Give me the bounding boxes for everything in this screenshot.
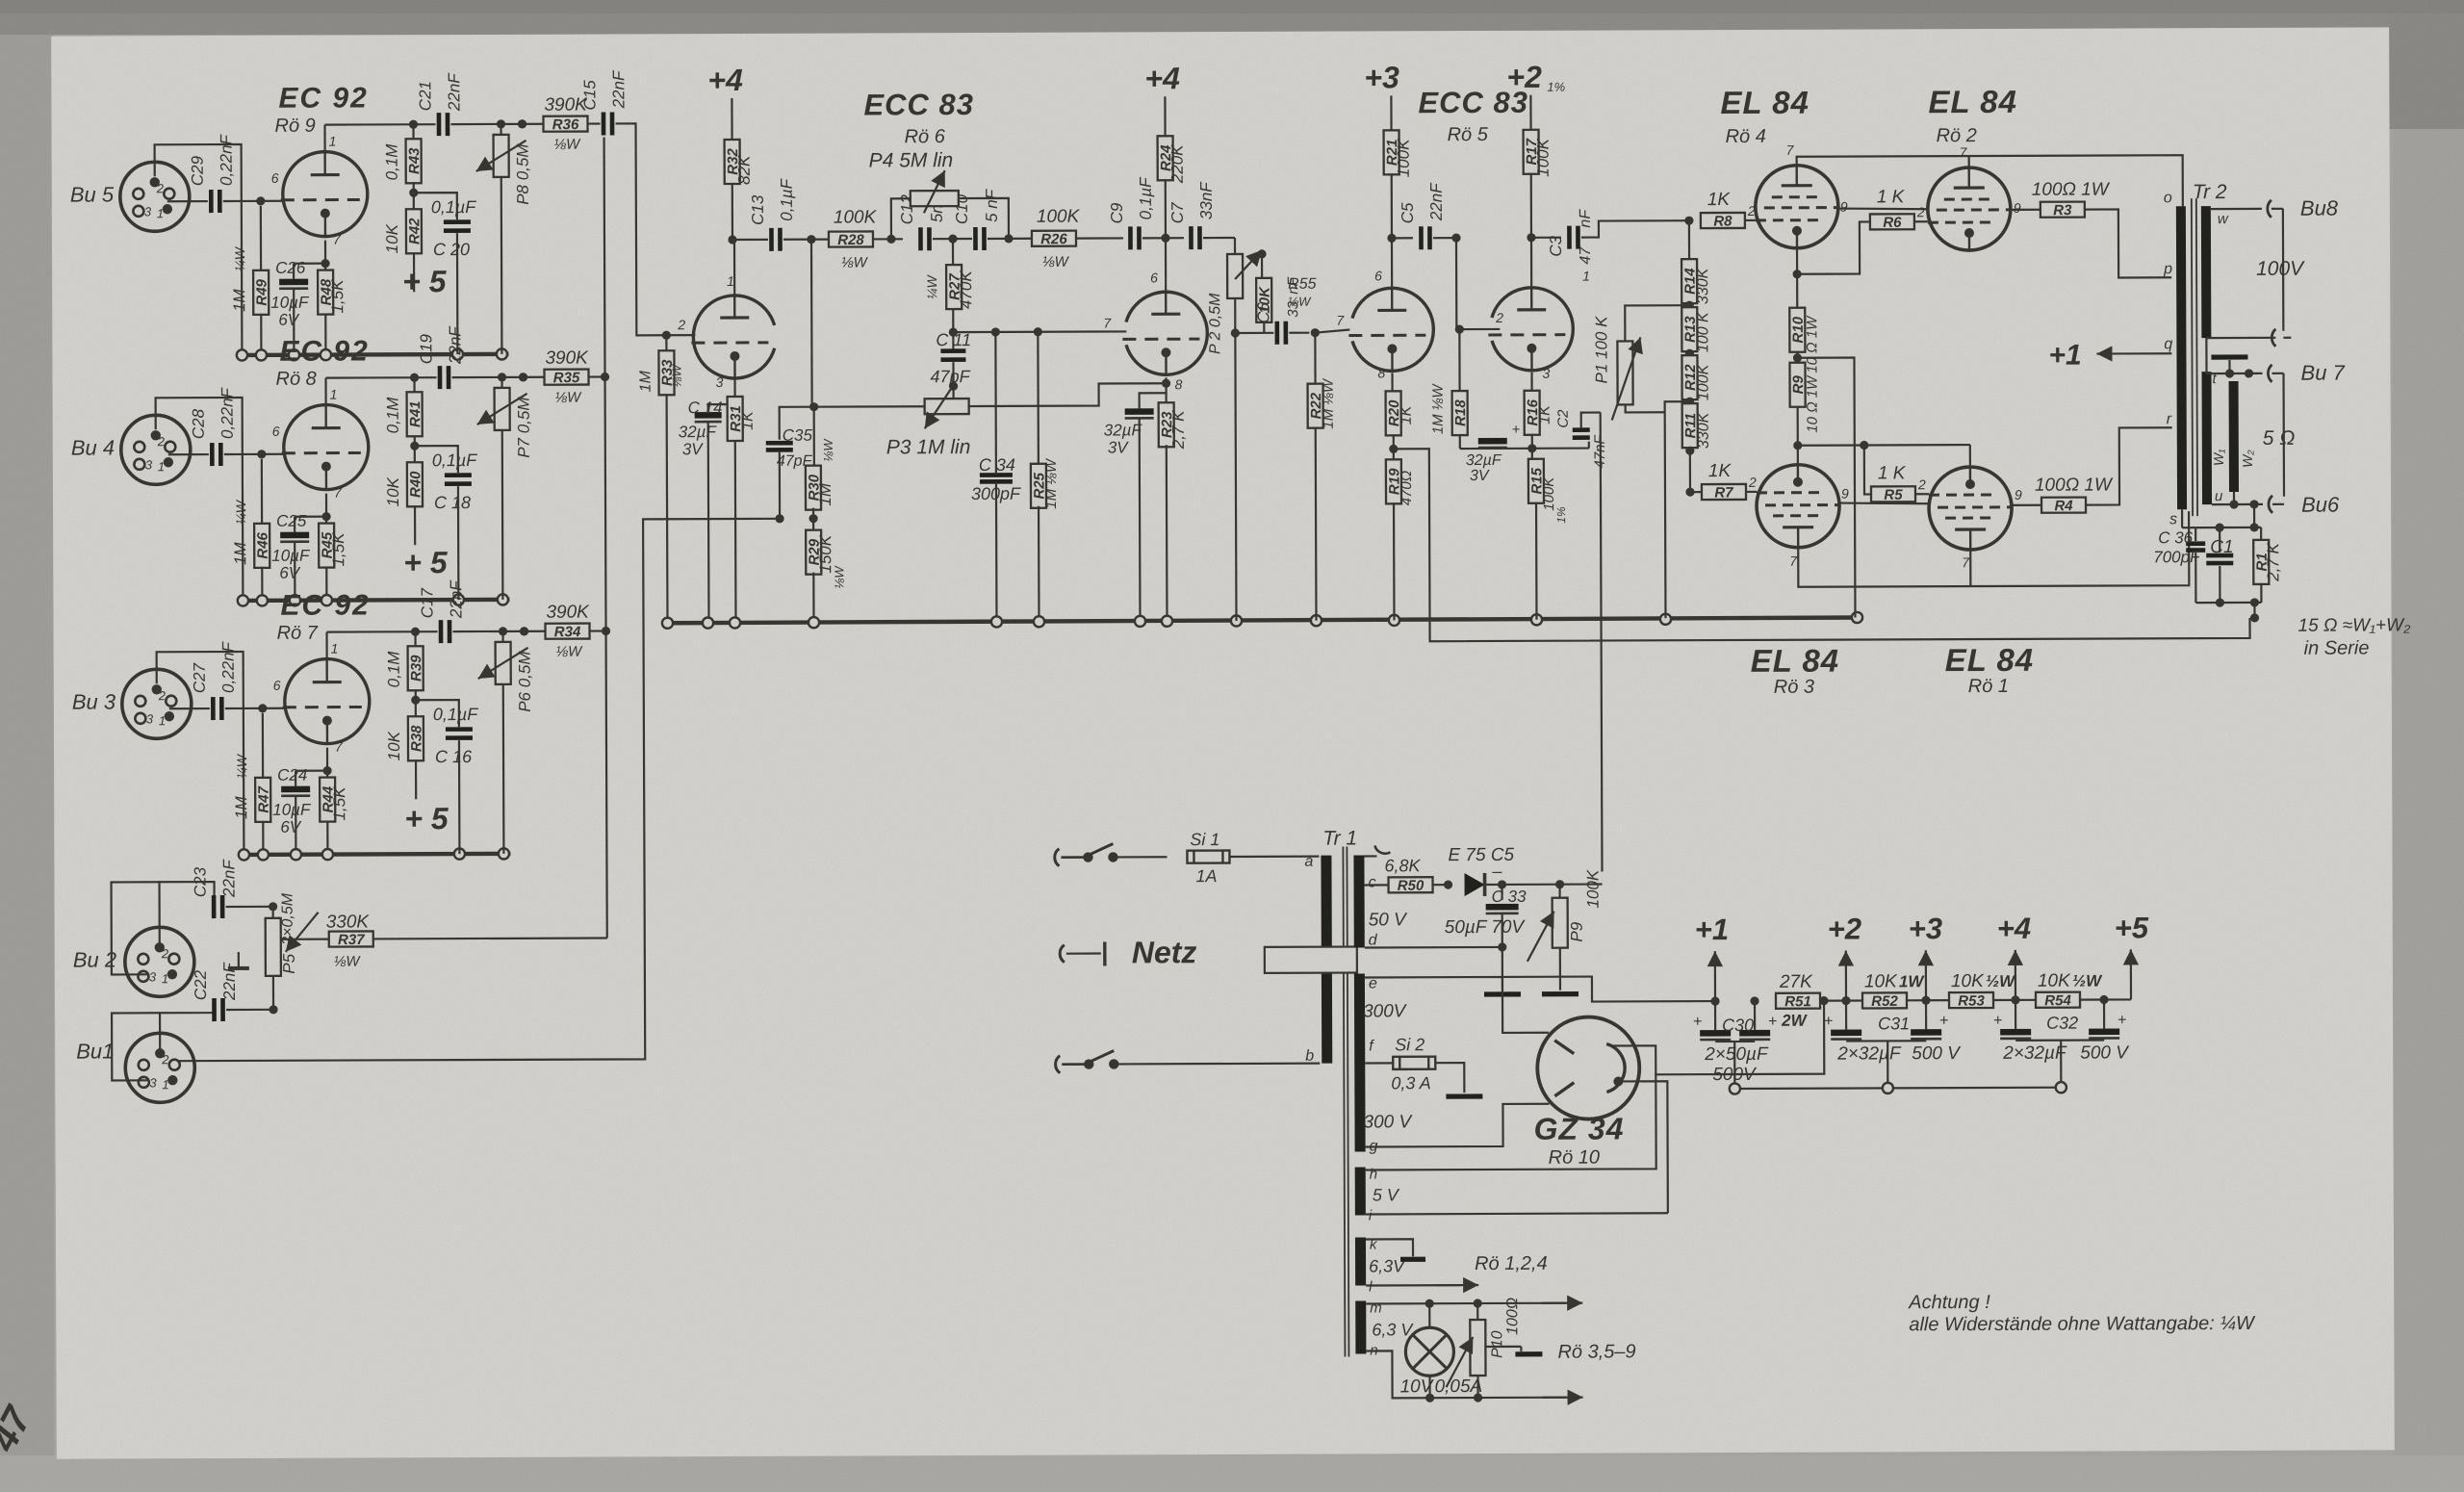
resistor R29 [806, 519, 846, 623]
capacitor C4 [1460, 422, 1589, 485]
wire Bu2 shield loop [112, 882, 160, 974]
capacitor C3 [1531, 208, 1694, 265]
wire Rö5a grid drop R22 [1315, 330, 1349, 385]
wire Rö6a cathode [731, 378, 739, 409]
resistor R50 [1364, 856, 1452, 894]
capacitor C16 [416, 700, 479, 854]
wire cathode row bottom tubes [1798, 440, 1970, 467]
main ground bus [662, 612, 1862, 629]
transformer Tr1 core [1343, 847, 1348, 1357]
pentode Rö3 [1750, 465, 1850, 698]
wire Rö5a cathode [1391, 373, 1393, 392]
wire g2 row bottom [1838, 502, 1930, 503]
chassis rail [239, 848, 511, 860]
transformer Tr2 secondary W [2201, 206, 2230, 338]
resistor R24 [1157, 96, 1187, 238]
resistor R37 [326, 911, 607, 969]
capacitor C36 [2153, 527, 2205, 603]
wire B+ rail left end [1502, 976, 1713, 1002]
wire top rail [327, 630, 438, 633]
chassis rail [237, 348, 509, 360]
resistor R47 [232, 713, 272, 855]
transformer Tr1 secondary k-l [1355, 1236, 1406, 1295]
wire P5 wiper to R37 [281, 939, 328, 940]
capacitor C10 [953, 188, 1034, 250]
wire R28 junction drop [810, 240, 813, 407]
wire mixing bus vertical [600, 137, 611, 938]
wire anode to top rail [323, 125, 325, 152]
capacitor C12 [898, 193, 972, 250]
resistor R1 [2253, 527, 2282, 603]
grid row Rö6b [953, 327, 1126, 337]
capacitor C2 [1555, 409, 1608, 469]
wire 5V winding top [1365, 1074, 1655, 1170]
resistor R23 [1159, 402, 1189, 621]
wire g2 row top [1837, 208, 1929, 209]
capacitor C1 [2206, 527, 2234, 603]
label +3 [1364, 60, 1399, 94]
resistor R25 [1030, 332, 1060, 622]
potentiometer P4 [869, 149, 1009, 240]
capacitor C28 [190, 386, 237, 466]
wire Rö5b grid leak R18 [1458, 329, 1460, 392]
capacitor C15 [580, 69, 628, 136]
capacitor C11 [930, 330, 971, 391]
resistor R33 [637, 331, 684, 624]
potentiometer P9 [1527, 869, 1602, 990]
resistor R8 [1701, 190, 1756, 230]
resistor R5 [1871, 463, 1929, 503]
resistor R21 [1383, 95, 1413, 243]
resistor R41 [384, 373, 424, 464]
capacitor C21 [416, 71, 526, 136]
transformer Tr1 primary bar [1304, 828, 1358, 1065]
capacitor C9 [1108, 176, 1184, 250]
capacitor C25 [271, 494, 331, 601]
wire anode to top rail [325, 632, 327, 659]
fuse Si2 [1365, 1035, 1464, 1093]
connector Bu1 [76, 1033, 194, 1102]
potentiometer P1 [1592, 305, 1689, 420]
wire Rö4 cathode [1792, 248, 1801, 309]
resistor R42 [383, 209, 423, 292]
resistor R20 [1386, 391, 1415, 461]
lamp 10V [1399, 1303, 1482, 1398]
label +5 feed [404, 801, 449, 836]
resistor R22 [1308, 377, 1338, 621]
wire top rail [325, 123, 436, 126]
resistor R44 [320, 771, 348, 855]
wire C15 to grid drop [616, 123, 696, 335]
resistor R6 [1870, 187, 1928, 231]
wire Bu6 to C36 box [2253, 504, 2255, 527]
wire 5V winding bottom [1366, 1213, 1668, 1214]
capacitor C13 [749, 177, 830, 251]
resistor R28 [829, 207, 903, 270]
psu ground line [1730, 1082, 2066, 1094]
resistor R3 [2010, 179, 2171, 278]
wire m heater [1366, 1295, 1582, 1311]
capacitor C29 [189, 133, 236, 213]
wire grid node [224, 450, 284, 458]
wire top rail [326, 376, 437, 379]
resistor R31 [728, 397, 757, 623]
resistor R43 [382, 120, 423, 211]
wire Bu5 pin1 to grid [167, 200, 208, 202]
wire P3 to cathode feedback [969, 383, 1167, 406]
resistor R36 [517, 95, 600, 153]
label +4 (first) [707, 63, 743, 97]
wire Bu2 top pin loop [160, 882, 215, 947]
wire R12-R11 junction to P1 drop [1665, 401, 1691, 618]
wire C31 to ground line [1846, 1041, 1926, 1083]
resistor R15 [1528, 459, 1569, 620]
wire u to Bu6 [2212, 492, 2340, 518]
wire d tap [1365, 947, 1502, 991]
wire Bu4 shield to rail [156, 398, 244, 601]
wire e to GZ34 [1365, 977, 1549, 1034]
resistor R10 [1789, 308, 1820, 373]
triode Rö5a [1335, 86, 1529, 381]
potentiometer P10 [1446, 1298, 1521, 1398]
capacitor C33 [1445, 885, 1527, 952]
wire anode line bottom [1798, 511, 2189, 587]
wire Rö5b cathode [1530, 373, 1532, 392]
resistor R27 [924, 239, 975, 337]
triode Rö8 [271, 335, 370, 500]
wire t to Bu7 [2206, 338, 2345, 386]
label +5 PSU [2099, 911, 2149, 1004]
label +2 PSU [1828, 912, 1862, 1005]
label 15 ohm note [2297, 615, 2411, 658]
triode Rö6a [676, 88, 975, 390]
ground Tr2 [2211, 357, 2247, 373]
resistor R55 [1256, 249, 1317, 333]
capacitor C30a [1693, 1001, 1731, 1040]
rectifier GZ34 [1533, 1016, 1640, 1168]
wire P2 row [1235, 332, 1273, 334]
resistor R53 [1949, 971, 2038, 1010]
terminal r [2167, 411, 2172, 427]
voltage selector [1265, 947, 1357, 973]
wire l heater Ro124 [1366, 1253, 1548, 1294]
triode Rö5b [1488, 269, 1590, 381]
plug Netz [1060, 935, 1196, 970]
wire bias vertical to P9 [1601, 413, 1603, 872]
resistor R7 [1685, 461, 1757, 502]
ground P9 [1542, 991, 1578, 996]
transformer Tr2 secondary W1 [2202, 372, 2227, 504]
wire R10 junction to bus [1797, 358, 1855, 618]
resistor R32 [724, 98, 754, 244]
capacitor C31a [1824, 1000, 1861, 1039]
terminal p [2163, 261, 2172, 277]
wire R11 to R7 junction [1689, 458, 1691, 492]
capacitor C6 [1254, 276, 1320, 345]
C36 C1 R1 box bottom [2195, 598, 2261, 622]
label +5 feed [403, 545, 449, 579]
ground Si2 [1446, 1093, 1482, 1098]
connector Bu3 [72, 669, 192, 738]
potentiometer P2 [1207, 238, 1262, 354]
wire Bu1 shield loop [112, 1013, 160, 1080]
potentiometer P3 [809, 386, 970, 459]
resistor R34 [519, 602, 608, 659]
transformer Tr1 secondary e-g [1354, 973, 1414, 1154]
potentiometer P7 [477, 373, 534, 600]
label 100V [2206, 209, 2306, 347]
wire k centertap [1366, 1239, 1425, 1259]
wire Bu5 shield to rail [155, 144, 243, 355]
pentode Rö1 [1929, 467, 2034, 697]
terminal q [2123, 336, 2172, 353]
label 5 ohm [2263, 373, 2296, 497]
ground C33 [1484, 991, 1521, 996]
terminal o [2164, 190, 2172, 206]
resistor R52 [1862, 971, 1951, 1010]
transformer Tr2 primary bar [2176, 181, 2228, 509]
capacitor C27 [191, 640, 238, 720]
capacitor C8 [1104, 393, 1168, 621]
capacitor C26 [270, 241, 330, 355]
wire cathode fb to line B [1394, 446, 2250, 641]
wire Bu1 to ECC83 grid [176, 519, 779, 1061]
resistor R54 [2036, 971, 2104, 1010]
wire anode line top [1797, 155, 2183, 208]
capacitor C17 [418, 579, 528, 643]
resistor R38 [385, 716, 425, 799]
resistor R30 [806, 407, 835, 524]
wire R5 to cathode row [1864, 445, 1871, 494]
C36 C1 R1 box top [2195, 523, 2261, 531]
label +2 [1506, 60, 1565, 94]
capacitor C34 [970, 332, 1021, 622]
capacitor C14 [679, 399, 736, 623]
wire anode rail C13 [732, 239, 768, 241]
potentiometer P6 [478, 627, 535, 854]
capacitor C19 [417, 324, 527, 389]
chassis rail [238, 594, 510, 605]
wire g to GZ34 [1365, 1104, 1549, 1147]
resistor R19 [1386, 459, 1416, 620]
pentode Rö4 [1720, 85, 1848, 249]
wire GZ34 heater loop [1618, 1081, 1668, 1213]
triode Rö6b [1103, 270, 1207, 392]
terminal s [2169, 511, 2177, 527]
wire Rö6b cathode [1162, 377, 1170, 404]
switch S1a [1055, 843, 1168, 865]
terminal t [2213, 371, 2218, 387]
label +3 PSU [1909, 912, 1943, 1005]
wire Bu4 pin1 to grid [168, 453, 209, 455]
wire Rö5a anode [1391, 238, 1393, 287]
wire Rö6a anode [733, 240, 735, 295]
label +5 feed [402, 264, 448, 298]
wire diode to P9 [1502, 880, 1603, 889]
wire anode to top rail [324, 378, 326, 405]
capacitor C22 [192, 961, 278, 1021]
label +4 (second) [1144, 61, 1180, 95]
capacitor C23 [191, 858, 277, 918]
transformer Tr2 core [2192, 198, 2197, 516]
resistor R18 [1430, 383, 1470, 450]
triode Rö7 [272, 589, 371, 754]
wire P2 bottom drop [1235, 333, 1236, 621]
connector Bu5 [70, 162, 190, 231]
resistor R26 [1032, 206, 1123, 270]
wire R6 to Rö4 cathode [1797, 221, 1870, 273]
capacitor C18 [415, 446, 478, 600]
wire Bu1 top pin loop [160, 999, 215, 1053]
wire n heater [1366, 1351, 1582, 1406]
resistor R9 [1789, 363, 1820, 450]
capacitor C24 [272, 748, 332, 855]
label +4 PSU [1997, 912, 2032, 1005]
transformer Tr1 secondary c-d [1353, 855, 1408, 948]
resistor stack R12 [1681, 355, 1711, 406]
resistor R16 [1525, 391, 1553, 461]
wire Bu3 shield to rail [157, 652, 244, 855]
switch S1b [1056, 1050, 1321, 1073]
capacitor C35 [766, 407, 814, 524]
resistor R35 [518, 347, 607, 405]
capacitor C20 [414, 193, 477, 354]
wire grid node [223, 196, 283, 205]
wire C30 to ground line [1715, 1042, 1755, 1084]
resistor R46 [231, 459, 271, 601]
connector Bu2 [73, 927, 194, 996]
note Achtung [1908, 1291, 2256, 1335]
resistor stack R13 [1681, 307, 1711, 358]
triode Rö9 [270, 82, 369, 246]
wire s to box [2182, 509, 2195, 527]
terminal arc top [1364, 845, 1390, 856]
capacitor C32b [2002, 999, 2130, 1064]
fuse Si1 [1187, 830, 1319, 887]
resistor R4 [2011, 427, 2172, 514]
resistor R39 [385, 628, 425, 718]
resistor R51 [1776, 971, 1864, 1029]
wire C5 to Rö5b grid [1454, 238, 1500, 334]
diode E75C5 [1448, 845, 1514, 896]
wire Rö5b anode [1530, 238, 1532, 287]
resistor R45 [319, 517, 347, 601]
wire C32 to ground line [2015, 1041, 2104, 1083]
label +1 PSU [1695, 913, 1730, 1006]
capacitor C7 [1168, 181, 1216, 250]
capacitor C32a [1993, 1000, 2031, 1039]
potentiometer P8 [475, 119, 532, 354]
resistor R49 [230, 206, 270, 355]
resistor R40 [384, 462, 424, 545]
transformer Tr2 secondary W2 [2229, 381, 2255, 492]
resistor stack R14 [1681, 220, 1711, 310]
wire GZ34 cathode out [1610, 996, 1829, 1074]
capacitor C30b [1704, 996, 1778, 1085]
wire Bu3 pin1 to grid [169, 707, 210, 709]
resistor R17 [1523, 95, 1553, 243]
page number 47 [0, 1399, 40, 1459]
capacitor C5 [1392, 182, 1461, 250]
wire Bu8 connection [2211, 196, 2339, 221]
transformer Tr1 secondary h-i [1355, 1166, 1400, 1223]
resistor stack R11 [1682, 403, 1712, 458]
transformer Tr1 secondary m-n [1355, 1299, 1414, 1358]
label Ro359 [1557, 1341, 1635, 1362]
wire Rö6b anode [1165, 238, 1167, 291]
terminal u [2215, 488, 2223, 504]
wire grid node [225, 704, 285, 712]
potentiometer P5 [228, 892, 319, 976]
capacitor C31b [1836, 1000, 1962, 1064]
resistor R48 [318, 264, 346, 355]
wire P10 wiper ground [1485, 1347, 1542, 1354]
pentode Rö2 [1927, 84, 2021, 250]
connector Bu4 [71, 415, 191, 484]
label +1 arrow [2048, 339, 2123, 371]
